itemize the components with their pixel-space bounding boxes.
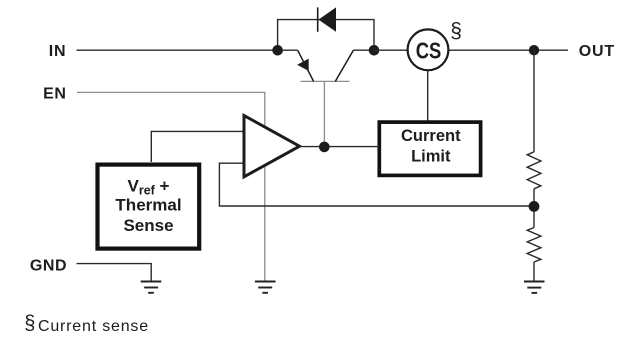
wire amp output [300, 146, 380, 148]
op-amp U1 [244, 116, 300, 177]
CS label [416, 39, 442, 64]
svg-text:OUT: OUT [579, 43, 615, 60]
wire OUT node to divider [533, 50, 535, 152]
wire node to CS [374, 49, 407, 51]
resistor R1 [527, 152, 541, 189]
resistor R2 [527, 228, 541, 263]
ground symbol (output divider) [524, 282, 545, 293]
transistor Q1 emitter [298, 50, 314, 81]
wire feedback to amp inverting input [219, 163, 534, 206]
current sense CS circle [408, 29, 449, 70]
svg-text:Current sense: Current sense [38, 318, 149, 335]
junction node at collector/top rail [369, 45, 380, 56]
svg-text:GND: GND [30, 257, 67, 274]
svg-text:EN: EN [43, 85, 66, 102]
diode D1 cathode bar [317, 7, 319, 31]
ground symbol (EN path) [255, 282, 276, 293]
transistor Q1 base drive wire (gray) [323, 81, 325, 144]
wire IN rail [77, 49, 298, 51]
transistor Q1 base bar (gray) [301, 80, 350, 82]
wire CS to OUT rail [449, 49, 568, 51]
transistor Q1 collector [335, 50, 353, 81]
junction node amp output [319, 142, 330, 153]
wire R2 to ground [533, 262, 535, 281]
junction node feedback [529, 201, 540, 212]
Vref + Thermal Sense box [98, 165, 200, 249]
wire collector stub [353, 49, 374, 51]
transistor Q1 emitter arrow [297, 59, 309, 71]
wire GND [77, 264, 152, 282]
svg-text:§: § [24, 312, 35, 334]
diode D1 [319, 7, 337, 31]
wire divider middle [533, 189, 535, 228]
svg-text:Limit: Limit [411, 147, 451, 165]
wire top rail with verticals [278, 20, 374, 51]
svg-text:CS: CS [416, 39, 442, 64]
svg-text:IN: IN [49, 43, 67, 60]
ground symbol (GND) [141, 282, 162, 293]
svg-text:Current: Current [401, 127, 461, 145]
svg-text:Thermal: Thermal [115, 195, 181, 214]
wire EN (gray) [77, 92, 265, 281]
wire Vref to amp noninverting input [151, 131, 243, 162]
svg-text:§: § [450, 19, 462, 42]
wire CS to current limit [427, 71, 429, 122]
junction node at IN/emitter [272, 45, 283, 56]
junction node OUT [529, 45, 539, 55]
svg-text:Sense: Sense [123, 216, 173, 235]
current limit box [379, 122, 480, 175]
